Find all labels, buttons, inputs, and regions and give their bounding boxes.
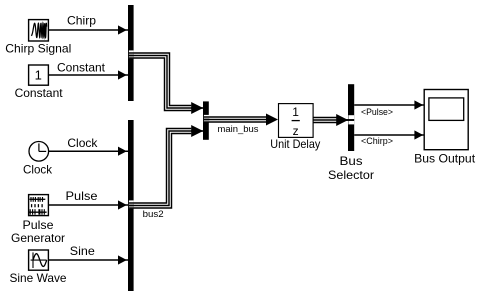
svg-text:<Chirp>: <Chirp> [361,136,393,147]
svg-text:Sine: Sine [70,244,95,258]
svg-text:Selector: Selector [328,168,374,182]
svg-text:Bus Output: Bus Output [414,151,476,165]
svg-text:Unit Delay: Unit Delay [270,137,320,151]
svg-text:Constant: Constant [15,86,64,100]
svg-text:Bus: Bus [340,154,363,168]
svg-text:1: 1 [292,105,299,119]
svg-text:bus2: bus2 [143,209,164,220]
svg-text:Sine Wave: Sine Wave [10,271,67,285]
svg-text:z: z [293,124,299,138]
svg-text:Generator: Generator [11,231,65,245]
svg-text:main_bus: main_bus [218,124,259,135]
svg-text:Chirp: Chirp [67,14,96,28]
svg-text:Clock: Clock [67,136,98,150]
svg-text:1: 1 [35,67,42,82]
svg-text:Pulse: Pulse [66,189,98,203]
svg-text:Clock: Clock [23,162,53,176]
svg-text:Constant: Constant [57,60,106,74]
svg-text:Chirp Signal: Chirp Signal [5,42,71,56]
svg-text:<Pulse>: <Pulse> [361,107,393,118]
